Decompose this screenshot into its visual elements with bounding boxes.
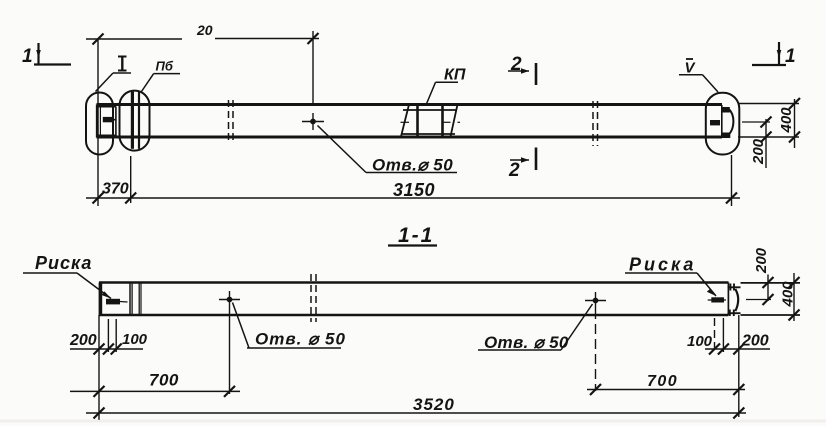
svg-text:400: 400 [778,107,795,134]
svg-text:20: 20 [196,22,213,38]
svg-text:Риска: Риска [35,253,92,273]
svg-text:200: 200 [750,138,767,165]
svg-text:700: 700 [149,371,179,390]
svg-text:Отв. ⌀ 50: Отв. ⌀ 50 [255,330,346,349]
svg-text:2: 2 [510,54,522,75]
svg-text:3150: 3150 [393,180,435,200]
svg-text:Риска: Риска [629,255,696,275]
svg-text:100: 100 [122,331,148,348]
svg-text:1-1: 1-1 [398,224,434,247]
svg-text:1: 1 [785,46,796,67]
svg-text:200: 200 [69,332,97,349]
svg-text:200: 200 [753,247,770,274]
svg-text:700: 700 [647,373,678,390]
svg-text:Пб: Пб [156,59,174,74]
svg-text:1: 1 [22,46,33,67]
svg-text:Отв.⌀ 50: Отв.⌀ 50 [372,156,453,175]
svg-text:370: 370 [102,181,129,198]
svg-text:200: 200 [741,333,769,350]
svg-text:400: 400 [780,281,797,308]
svg-text:КП: КП [444,66,466,83]
svg-text:Отв. ⌀ 50: Отв. ⌀ 50 [484,333,569,352]
svg-text:3520: 3520 [413,395,455,414]
svg-text:100: 100 [687,333,713,350]
svg-text:2: 2 [508,160,520,181]
